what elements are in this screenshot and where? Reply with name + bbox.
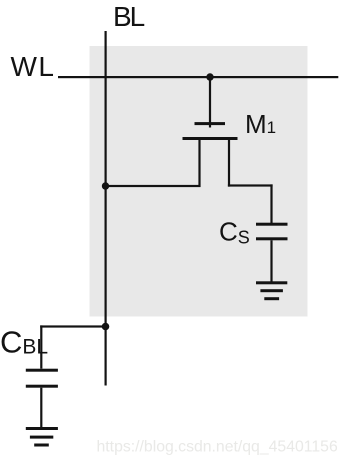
- ground (CS): [256, 281, 287, 300]
- svg-text:https://blog.csdn.net/qq_45401: https://blog.csdn.net/qq_45401156: [97, 439, 338, 456]
- ground (CBL): [26, 427, 58, 447]
- DRAM cell region: [90, 46, 308, 317]
- junction WL-gate: [206, 73, 213, 80]
- svg-text:BL: BL: [113, 1, 145, 32]
- capacitor CBL: [26, 369, 58, 388]
- wire source horizontal: [105, 185, 201, 187]
- wire BL to CBL horizontal: [40, 325, 105, 327]
- transistor M1: [183, 122, 238, 140]
- wire drain to CS: [270, 184, 272, 224]
- wire CS to ground: [270, 240, 272, 281]
- svg-text:WL: WL: [11, 51, 56, 82]
- capacitor CS: [256, 223, 288, 241]
- wire source vertical: [198, 140, 200, 187]
- junction BL-source: [102, 182, 109, 189]
- wire gate stem: [209, 77, 211, 128]
- wire BL vertical: [105, 31, 107, 386]
- wire drain horizontal: [228, 184, 273, 186]
- wire drain vertical: [228, 140, 230, 187]
- wire CBL to ground: [40, 388, 42, 427]
- wire WL horizontal: [58, 76, 338, 78]
- junction BL-CBL: [102, 323, 110, 331]
- wire CBL stem: [40, 325, 42, 368]
